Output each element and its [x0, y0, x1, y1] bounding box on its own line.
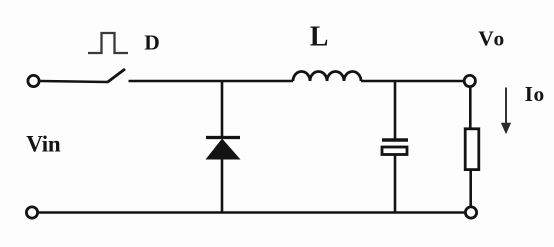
svg-text:Vin: Vin: [26, 131, 61, 156]
svg-text:Vo: Vo: [478, 26, 506, 50]
svg-text:D: D: [144, 30, 160, 54]
svg-text:L: L: [310, 22, 329, 53]
svg-text:Io: Io: [525, 82, 545, 106]
